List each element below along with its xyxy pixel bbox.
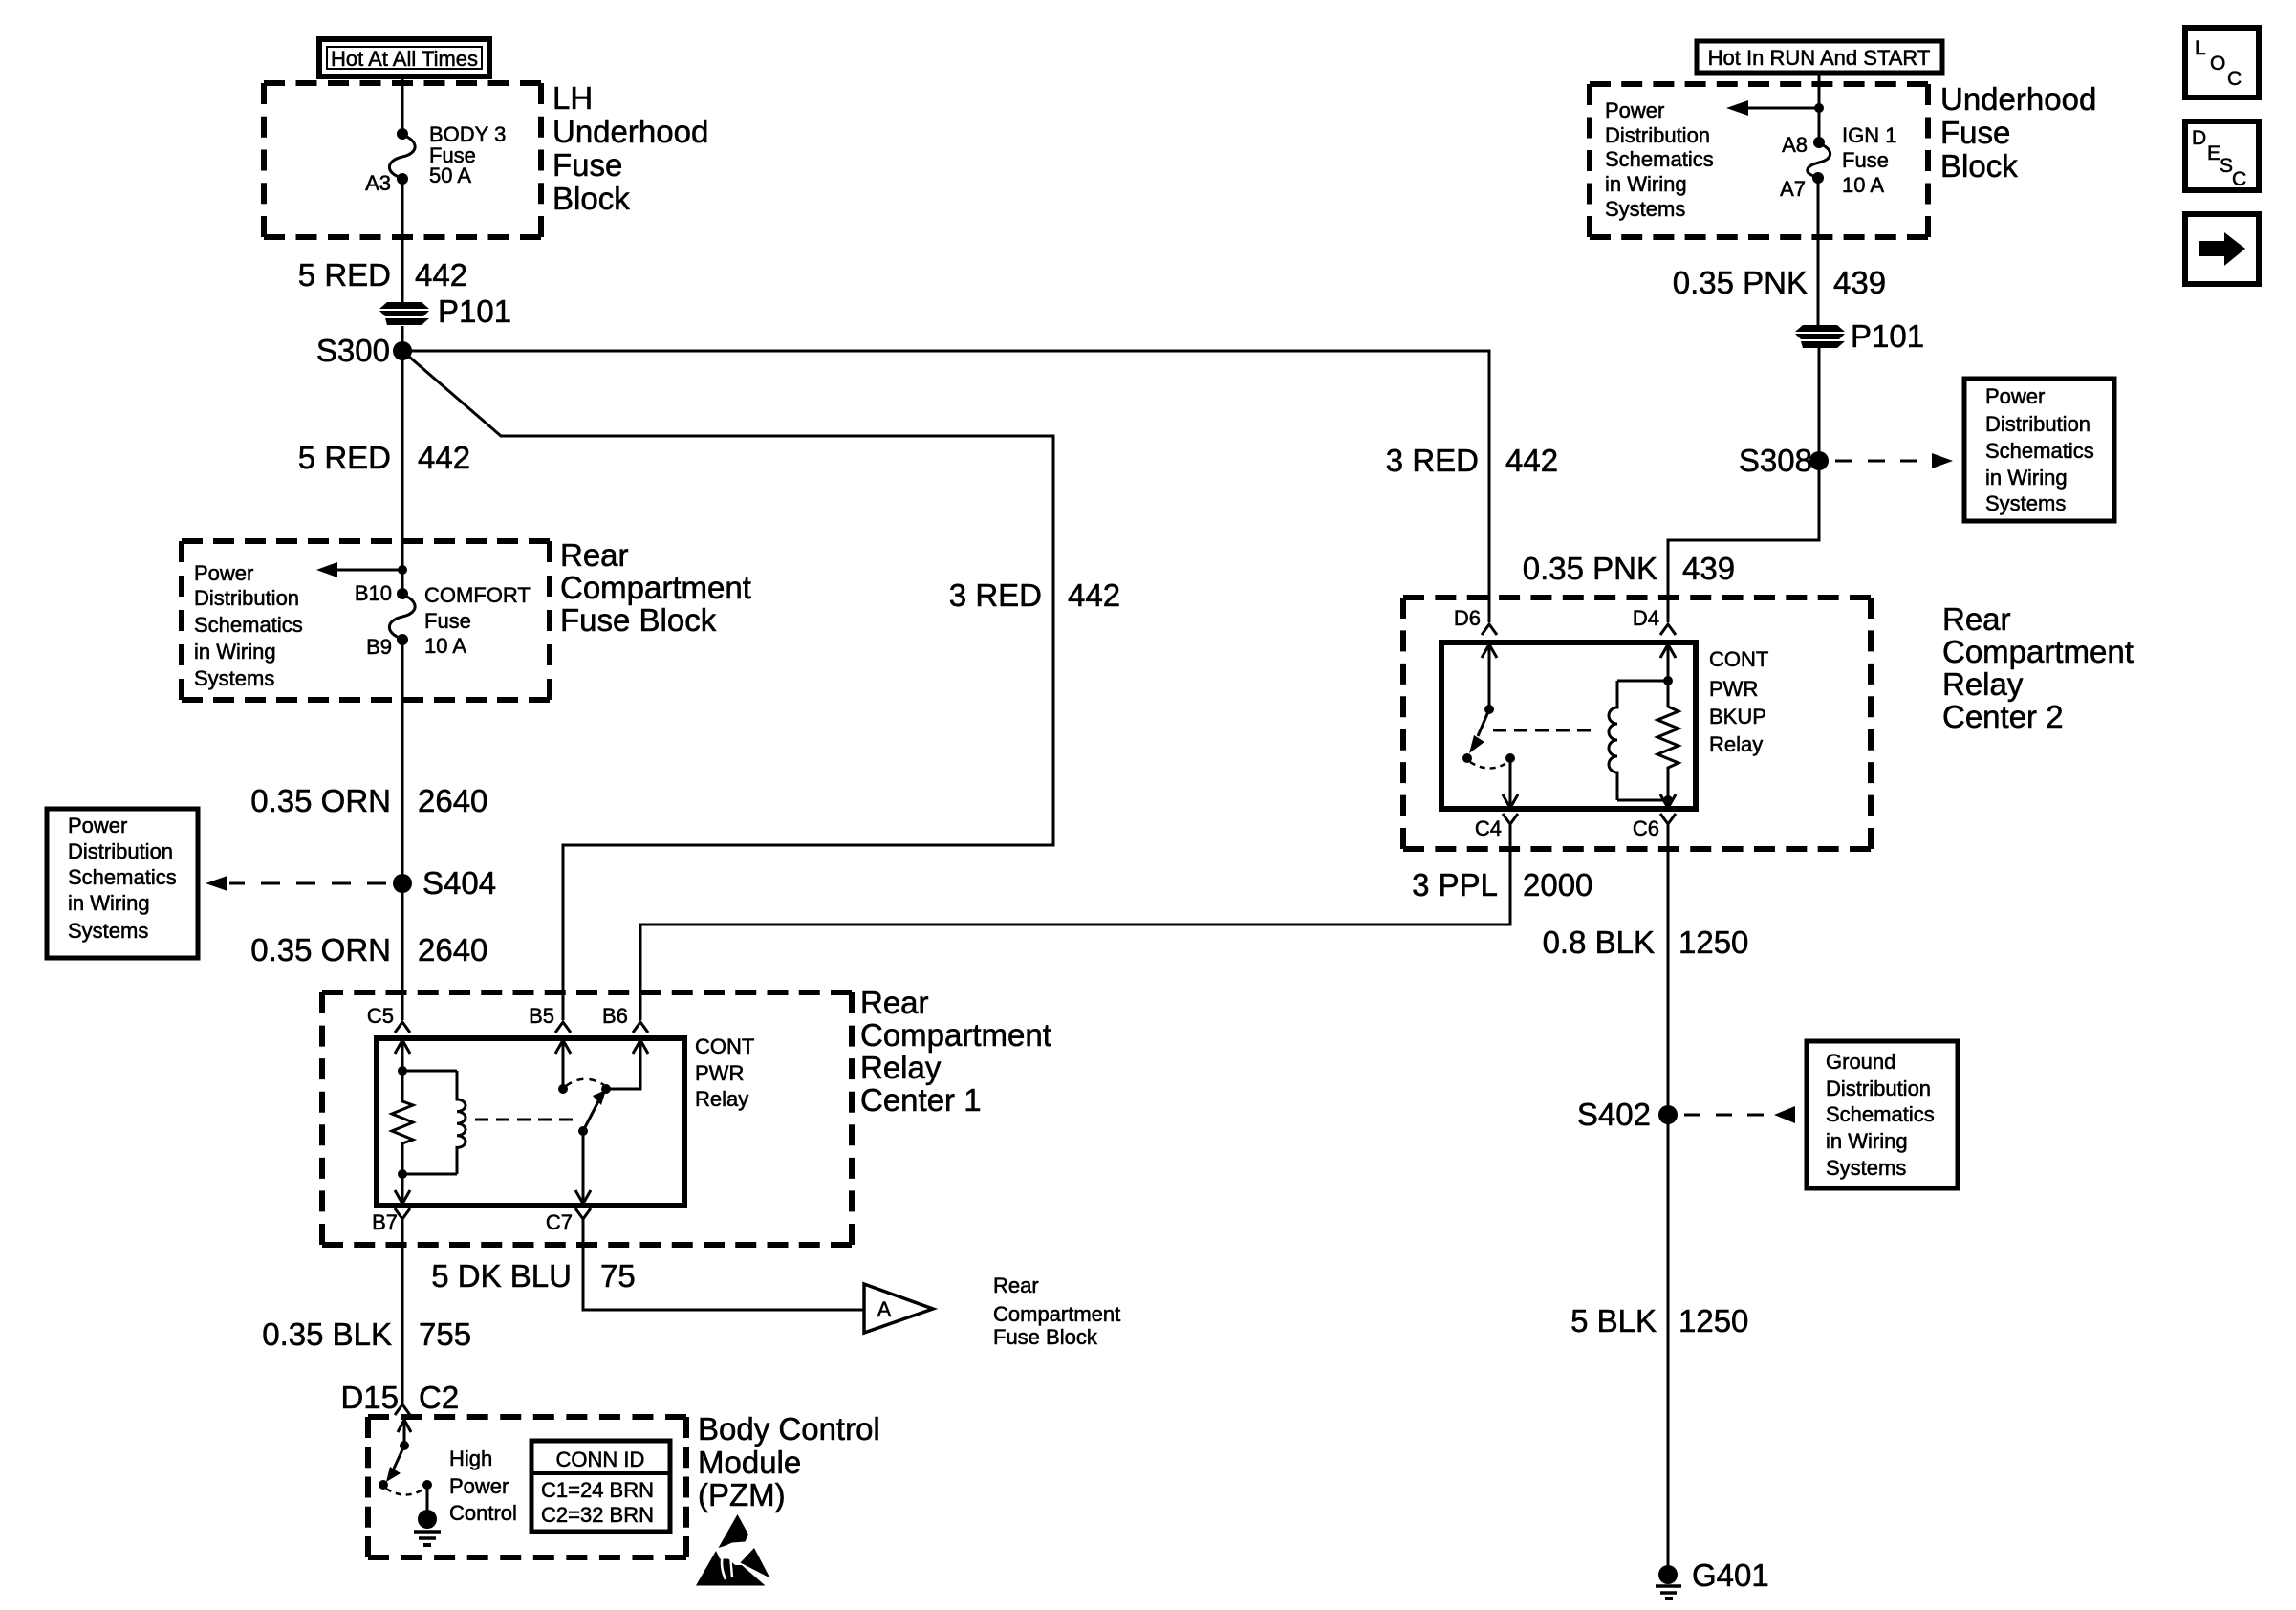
svg-text:(PZM): (PZM) — [698, 1477, 786, 1512]
svg-text:Rear: Rear — [860, 985, 929, 1020]
svg-text:755: 755 — [419, 1316, 471, 1352]
Body Control Module dashed box — [368, 1414, 686, 1420]
svg-text:2640: 2640 — [418, 932, 487, 968]
wire label 0.35 ORN 2640 (upper) — [250, 783, 487, 818]
pin C4 connector chevron — [1503, 814, 1518, 824]
arrow from B10 to power distribution text — [316, 562, 407, 577]
ESD sensitive device symbol — [696, 1514, 770, 1586]
svg-text:0.35 ORN: 0.35 ORN — [250, 932, 391, 968]
wire C7 down and right to A arrow — [583, 1219, 863, 1310]
svg-text:Systems: Systems — [1826, 1156, 1906, 1180]
svg-text:50 A: 50 A — [429, 163, 471, 187]
svg-text:C7: C7 — [546, 1210, 573, 1234]
splice node S308 — [1809, 451, 1829, 470]
Hot In RUN And START flag box — [1697, 41, 1942, 73]
svg-text:Control: Control — [449, 1501, 517, 1525]
DESC icon box — [2185, 121, 2259, 190]
IGN 1 Fuse 10 A label — [1842, 123, 1896, 197]
svg-text:Distribution: Distribution — [1826, 1077, 1931, 1100]
svg-text:E: E — [2207, 142, 2220, 164]
BCM high power control switch arm — [379, 1446, 404, 1490]
svg-text:B6: B6 — [602, 1004, 628, 1028]
wire from Hot At All Times into fuse block — [401, 75, 404, 134]
svg-text:Schematics: Schematics — [1985, 439, 2094, 463]
svg-text:CONT: CONT — [695, 1034, 754, 1058]
BCM internal ground — [414, 1510, 441, 1545]
wire label 5 DK BLU 75 — [431, 1258, 635, 1294]
relay 1 switch arm — [578, 1090, 606, 1136]
LH Underhood Fuse Block label — [552, 80, 708, 216]
wire label 3 RED 442 (middle) — [949, 577, 1120, 613]
svg-text:PWR: PWR — [1709, 677, 1758, 701]
pin C7 connector chevron — [575, 1208, 591, 1219]
dashed arrow S402 to ground distribution box — [1684, 1106, 1795, 1123]
svg-text:C2: C2 — [419, 1380, 459, 1415]
LH Underhood Fuse Block dashed box — [264, 80, 541, 86]
C7 pin line with down arrow inside relay — [575, 1131, 591, 1204]
svg-text:D4: D4 — [1633, 606, 1659, 630]
wire P101 to S300 — [401, 326, 404, 351]
wire C6 down to G401 — [1667, 824, 1670, 1568]
pin labels D15 C2 — [340, 1380, 459, 1415]
svg-text:C: C — [2227, 68, 2242, 90]
svg-text:C2=32 BRN: C2=32 BRN — [541, 1503, 654, 1527]
svg-text:P101: P101 — [438, 294, 511, 329]
svg-text:442: 442 — [1505, 443, 1558, 478]
svg-text:COMFORT: COMFORT — [424, 583, 531, 607]
svg-text:Module: Module — [698, 1445, 801, 1480]
svg-text:Power: Power — [1985, 384, 2045, 408]
splice node S402 — [1658, 1105, 1678, 1124]
Power Distribution Schematics in Wiring Systems text (inside rear fuse block) — [194, 561, 303, 690]
svg-text:Distribution: Distribution — [68, 839, 173, 863]
wire label 5 RED 442 (second) — [298, 440, 470, 475]
svg-text:Compartment: Compartment — [860, 1017, 1051, 1053]
svg-text:PWR: PWR — [695, 1061, 744, 1085]
svg-text:A: A — [877, 1297, 892, 1321]
svg-text:Fuse Block: Fuse Block — [560, 602, 717, 638]
wire label 0.35 PNK 439 (lower) — [1523, 551, 1735, 586]
fuse COMFORT 10A — [389, 588, 415, 645]
svg-text:2000: 2000 — [1523, 867, 1592, 903]
svg-text:Body Control: Body Control — [698, 1411, 880, 1447]
splice node S300 — [393, 341, 412, 360]
svg-text:Compartment: Compartment — [993, 1302, 1120, 1326]
svg-text:0.35 PNK: 0.35 PNK — [1673, 265, 1808, 300]
svg-text:A3: A3 — [365, 171, 391, 195]
pin B5 connector chevron — [555, 1022, 571, 1033]
svg-text:0.8 BLK: 0.8 BLK — [1543, 925, 1655, 960]
svg-text:C5: C5 — [367, 1004, 394, 1028]
svg-text:S402: S402 — [1577, 1097, 1651, 1132]
pass-through grommet P101 (right) — [1795, 325, 1845, 348]
wire label 0.8 BLK 1250 — [1543, 925, 1749, 960]
wire S300 horizontal to relay center 2 — [402, 351, 1489, 622]
wire S308 down and left to D4 — [1668, 461, 1819, 622]
relay 1 resistor — [392, 1071, 413, 1174]
svg-text:439: 439 — [1833, 265, 1886, 300]
svg-text:A8: A8 — [1782, 133, 1808, 157]
svg-text:Systems: Systems — [194, 666, 274, 690]
svg-text:S: S — [2220, 155, 2233, 177]
svg-text:O: O — [2210, 53, 2225, 75]
BCM input pin with up arrow — [398, 1420, 411, 1450]
svg-text:Fuse: Fuse — [1842, 148, 1889, 172]
svg-text:LH: LH — [552, 80, 593, 116]
C6 pin line with down arrow inside relay — [1660, 794, 1676, 808]
dashed arrow S404 to power distribution box — [206, 876, 386, 891]
Body Control Module (PZM) label — [698, 1411, 880, 1512]
svg-text:0.35 BLK: 0.35 BLK — [262, 1316, 392, 1352]
svg-text:B5: B5 — [529, 1004, 554, 1028]
svg-text:Distribution: Distribution — [194, 586, 299, 610]
svg-text:S300: S300 — [316, 333, 390, 368]
svg-text:3 RED: 3 RED — [949, 577, 1042, 613]
svg-text:Distribution: Distribution — [1985, 412, 2090, 436]
wire label 5 RED 442 — [298, 257, 467, 293]
svg-text:CONT: CONT — [1709, 647, 1768, 671]
svg-text:Hot At All Times: Hot At All Times — [331, 47, 478, 71]
svg-text:439: 439 — [1682, 551, 1735, 586]
Rear Compartment Fuse Block label — [560, 537, 751, 638]
svg-text:Block: Block — [552, 181, 630, 216]
svg-text:10 A: 10 A — [1842, 173, 1884, 197]
Rear Compartment Relay Center 1 label — [860, 985, 1051, 1118]
svg-text:L: L — [2195, 37, 2206, 59]
svg-text:Center 1: Center 1 — [860, 1082, 982, 1118]
CONT PWR BKUP Relay label — [1709, 647, 1768, 756]
wire from Hot In RUN into fuse block — [1818, 73, 1821, 142]
svg-text:Relay: Relay — [1709, 732, 1763, 756]
wire label 5 BLK 1250 — [1570, 1303, 1748, 1338]
svg-text:442: 442 — [415, 257, 467, 293]
Rear Compartment Fuse Block dashed box — [182, 538, 550, 544]
svg-text:442: 442 — [418, 440, 470, 475]
Rear Compartment Relay Center 2 dashed box — [1403, 595, 1871, 600]
ground G401 — [1656, 1565, 1681, 1599]
pin D15/C2 connector chevron — [395, 1404, 410, 1415]
BCM switch dashed arc — [386, 1489, 424, 1495]
pass-through grommet P101 (left) — [379, 302, 429, 325]
svg-text:Underhood: Underhood — [1940, 81, 2096, 117]
svg-text:Schematics: Schematics — [194, 613, 303, 637]
svg-text:Power: Power — [68, 814, 127, 838]
BODY 3 Fuse 50 A label — [429, 122, 506, 187]
svg-text:Systems: Systems — [1605, 197, 1685, 221]
svg-text:3 RED: 3 RED — [1386, 443, 1479, 478]
Ground Distribution Schematics reference box — [1807, 1041, 1958, 1188]
svg-text:Compartment: Compartment — [560, 570, 751, 605]
wire A7 down to P101 right — [1817, 178, 1820, 326]
svg-text:Systems: Systems — [68, 919, 148, 943]
pin B6 connector chevron — [633, 1022, 648, 1033]
pin B7 connector chevron — [395, 1208, 410, 1219]
Power Distribution Schematics reference box (right) — [1964, 379, 2114, 521]
relay 2 coil — [1609, 681, 1673, 805]
svg-text:C6: C6 — [1633, 816, 1659, 840]
svg-text:2640: 2640 — [418, 783, 487, 818]
svg-text:75: 75 — [600, 1258, 636, 1294]
svg-text:3 PPL: 3 PPL — [1412, 867, 1498, 903]
svg-text:0.35 ORN: 0.35 ORN — [250, 783, 391, 818]
CONT PWR relay box (relay center 1) — [377, 1038, 684, 1206]
svg-text:D6: D6 — [1454, 606, 1481, 630]
A destination triangle — [864, 1284, 933, 1333]
svg-text:1250: 1250 — [1679, 925, 1748, 960]
wire label 3 RED 442 (right) — [1386, 443, 1558, 478]
svg-text:Schematics: Schematics — [1605, 147, 1714, 171]
svg-text:Fuse: Fuse — [424, 609, 471, 633]
CONT PWR Relay label — [695, 1034, 754, 1111]
wire label 0.35 PNK 439 (upper) — [1673, 265, 1886, 300]
Power Distribution Schematics text (inside right fuse block) — [1605, 98, 1714, 221]
pin D6 connector chevron — [1482, 624, 1497, 635]
svg-text:C1=24 BRN: C1=24 BRN — [541, 1478, 654, 1502]
wire P101 to S308 — [1818, 348, 1821, 461]
svg-text:Rear: Rear — [993, 1273, 1039, 1297]
Rear Compartment Relay Center 2 label — [1942, 601, 2134, 734]
wire C4 down and left to B6 — [640, 824, 1510, 1020]
svg-text:Block: Block — [1940, 148, 2018, 184]
svg-text:Relay: Relay — [1942, 666, 2024, 702]
COMFORT Fuse 10 A label — [424, 583, 531, 658]
relay 2 mechanical dashed link — [1493, 729, 1597, 732]
svg-text:C4: C4 — [1475, 816, 1502, 840]
svg-text:Rear: Rear — [560, 537, 629, 573]
svg-text:442: 442 — [1068, 577, 1120, 613]
svg-text:S404: S404 — [422, 865, 496, 901]
svg-text:D15: D15 — [340, 1380, 399, 1415]
D6 pin line with up arrow inside relay — [1482, 644, 1497, 714]
svg-text:G401: G401 — [1692, 1557, 1769, 1593]
pin C6 connector chevron — [1660, 814, 1676, 824]
svg-text:in Wiring: in Wiring — [1605, 172, 1687, 196]
Hot At All Times flag box — [319, 39, 489, 76]
svg-text:P101: P101 — [1851, 318, 1924, 354]
svg-text:S308: S308 — [1739, 443, 1812, 478]
B6 pin line with up arrow inside relay — [601, 1040, 648, 1094]
relay 1 coil — [398, 1071, 466, 1179]
svg-text:D: D — [2192, 127, 2206, 149]
svg-text:10 A: 10 A — [424, 634, 466, 658]
svg-text:in Wiring: in Wiring — [1985, 466, 2068, 490]
Rear Compartment Fuse Block destination label — [993, 1273, 1120, 1349]
D4 pin line with up arrow inside relay — [1660, 644, 1676, 685]
wire B9 down to relay center 1 — [401, 640, 404, 1020]
Underhood Fuse Block label (right) — [1940, 81, 2096, 184]
wire B7 down to BCM — [401, 1219, 404, 1403]
arrow from IGN1 feed to power distribution text — [1726, 100, 1824, 116]
relay 1 mechanical dashed link — [475, 1119, 580, 1121]
Underhood Fuse Block dashed box (right) — [1590, 81, 1928, 87]
High Power Control label — [449, 1447, 517, 1525]
wire label 0.35 BLK 755 — [262, 1316, 471, 1352]
svg-text:Systems: Systems — [1985, 491, 2066, 515]
svg-text:in Wiring: in Wiring — [194, 640, 276, 664]
CONT PWR BKUP relay box (relay center 2) — [1441, 642, 1696, 809]
svg-text:Underhood: Underhood — [552, 114, 708, 149]
relay 2 resistor — [1657, 681, 1679, 800]
svg-text:Compartment: Compartment — [1942, 634, 2134, 669]
svg-text:Relay: Relay — [695, 1087, 748, 1111]
CONN ID table — [531, 1441, 670, 1532]
svg-text:B7: B7 — [372, 1210, 398, 1234]
LOC icon box — [2185, 28, 2259, 98]
svg-text:Rear: Rear — [1942, 601, 2011, 637]
forward arrow icon box — [2185, 214, 2259, 284]
svg-text:Schematics: Schematics — [1826, 1102, 1935, 1126]
svg-text:B10: B10 — [355, 581, 392, 605]
wire S300 diagonal branch to relay center 1 B5 — [402, 351, 1053, 1020]
dashed arrow S308 to power distribution box — [1835, 453, 1953, 468]
svg-text:5 DK BLU: 5 DK BLU — [431, 1258, 572, 1294]
relay 2 switch dashed arc — [1470, 762, 1508, 769]
svg-text:Fuse Block: Fuse Block — [993, 1325, 1098, 1349]
Rear Compartment Relay Center 1 dashed box — [322, 990, 852, 995]
C4 pin line with down arrow inside relay — [1503, 753, 1518, 808]
svg-text:IGN 1: IGN 1 — [1842, 123, 1896, 147]
svg-text:5 RED: 5 RED — [298, 440, 391, 475]
B5 pin line with up arrow inside relay — [555, 1040, 571, 1094]
svg-text:Fuse: Fuse — [1940, 115, 2010, 150]
svg-text:Fuse: Fuse — [552, 147, 622, 183]
svg-text:1250: 1250 — [1679, 1303, 1748, 1338]
pin C5 connector chevron — [395, 1022, 410, 1033]
svg-text:Power: Power — [194, 561, 253, 585]
svg-text:CONN ID: CONN ID — [556, 1447, 645, 1471]
svg-text:High: High — [449, 1447, 492, 1470]
C5 pin line with up arrow inside relay — [395, 1040, 410, 1076]
svg-text:Relay: Relay — [860, 1050, 942, 1085]
svg-text:Distribution: Distribution — [1605, 123, 1710, 147]
Power Distribution Schematics reference box (left) — [47, 809, 198, 958]
svg-text:B9: B9 — [366, 635, 392, 659]
svg-text:in Wiring: in Wiring — [1826, 1129, 1908, 1153]
svg-text:Ground: Ground — [1826, 1050, 1895, 1074]
svg-text:5 BLK: 5 BLK — [1570, 1303, 1657, 1338]
svg-text:Power: Power — [1605, 98, 1664, 122]
svg-text:C: C — [2232, 168, 2246, 190]
fuse IGN 1 10A — [1808, 137, 1830, 184]
wire label 0.35 ORN 2640 (lower) — [250, 932, 487, 968]
wire A3 down to P101 — [401, 179, 404, 303]
svg-text:Hot In RUN And START: Hot In RUN And START — [1708, 46, 1931, 70]
splice node S404 — [393, 874, 412, 893]
svg-text:Power: Power — [449, 1474, 509, 1498]
svg-text:Schematics: Schematics — [68, 865, 177, 889]
wire label 3 PPL 2000 — [1412, 867, 1592, 903]
wire S300 to rear compartment fuse block — [401, 351, 404, 594]
B7 pin line with down arrow inside relay — [395, 1174, 410, 1204]
svg-text:A7: A7 — [1780, 177, 1806, 201]
relay 1 switch dashed arc — [566, 1079, 604, 1086]
svg-text:in Wiring: in Wiring — [68, 891, 150, 915]
relay 2 switch arm — [1462, 709, 1489, 763]
svg-text:Center 2: Center 2 — [1942, 699, 2064, 734]
svg-text:BKUP: BKUP — [1709, 705, 1766, 729]
svg-text:0.35 PNK: 0.35 PNK — [1523, 551, 1657, 586]
svg-text:5 RED: 5 RED — [298, 257, 391, 293]
fuse BODY 3 50A — [389, 128, 415, 185]
pin D4 connector chevron — [1660, 624, 1676, 635]
BCM switch fixed contact — [422, 1480, 432, 1511]
